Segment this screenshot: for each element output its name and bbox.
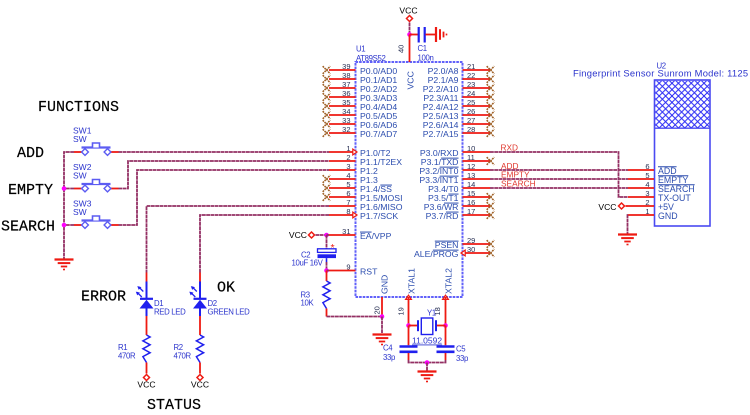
svg-text:VCC: VCC xyxy=(406,71,416,89)
svg-text:C4: C4 xyxy=(383,344,393,353)
svg-text:AT89S52: AT89S52 xyxy=(356,54,385,63)
svg-text:VCC: VCC xyxy=(137,380,155,390)
svg-text:VCC: VCC xyxy=(598,202,616,212)
svg-text:26: 26 xyxy=(467,107,475,116)
svg-text:33: 33 xyxy=(342,116,350,125)
svg-text:SW: SW xyxy=(73,207,87,217)
svg-text:GND: GND xyxy=(380,275,390,294)
svg-text:ERROR: ERROR xyxy=(81,289,126,306)
svg-text:EMPTY: EMPTY xyxy=(8,182,53,199)
svg-text:3: 3 xyxy=(645,189,649,198)
svg-text:XTAL2: XTAL2 xyxy=(444,268,454,294)
svg-text:12: 12 xyxy=(467,162,475,171)
svg-text:38: 38 xyxy=(342,71,350,80)
svg-text:C1: C1 xyxy=(418,44,427,53)
svg-text:XTAL1: XTAL1 xyxy=(407,268,417,294)
svg-text:SW: SW xyxy=(73,171,87,181)
svg-text:32: 32 xyxy=(342,125,350,134)
svg-text:6: 6 xyxy=(645,162,649,171)
svg-text:20: 20 xyxy=(373,306,382,314)
svg-text:RST: RST xyxy=(360,267,378,277)
svg-text:*: * xyxy=(331,242,335,254)
svg-text:100n: 100n xyxy=(418,54,434,63)
svg-text:13: 13 xyxy=(467,171,475,180)
svg-text:5: 5 xyxy=(645,171,649,180)
svg-text:10: 10 xyxy=(467,144,475,153)
svg-text:33p: 33p xyxy=(383,353,396,362)
svg-text:ALE/PROG: ALE/PROG xyxy=(414,249,459,259)
svg-text:Fingerprint Sensor Sunrom Mode: Fingerprint Sensor Sunrom Model: 1125 xyxy=(573,68,748,79)
svg-text:VCC: VCC xyxy=(289,230,307,240)
svg-text:25: 25 xyxy=(467,98,475,107)
svg-text:VCC: VCC xyxy=(399,6,417,16)
svg-text:RXD: RXD xyxy=(501,143,519,153)
svg-text:5: 5 xyxy=(346,180,350,189)
svg-text:C5: C5 xyxy=(456,345,466,354)
svg-text:24: 24 xyxy=(467,89,475,98)
svg-text:P0.7/AD7: P0.7/AD7 xyxy=(360,129,397,139)
svg-text:7: 7 xyxy=(346,198,350,207)
svg-text:39: 39 xyxy=(342,62,350,71)
svg-text:FUNCTIONS: FUNCTIONS xyxy=(38,99,119,116)
svg-text:16: 16 xyxy=(467,198,475,207)
svg-text:21: 21 xyxy=(467,62,475,71)
svg-text:11.0592: 11.0592 xyxy=(412,336,442,346)
svg-text:30: 30 xyxy=(467,245,475,254)
svg-text:470R: 470R xyxy=(174,352,192,361)
svg-text:1: 1 xyxy=(346,144,350,153)
svg-text:3: 3 xyxy=(346,162,350,171)
svg-text:10K: 10K xyxy=(301,299,315,308)
svg-text:SEARCH: SEARCH xyxy=(501,179,536,189)
svg-text:Y1: Y1 xyxy=(427,309,436,318)
svg-text:VCC: VCC xyxy=(191,380,209,390)
svg-text:31: 31 xyxy=(342,227,350,236)
svg-text:23: 23 xyxy=(467,80,475,89)
svg-text:4: 4 xyxy=(346,171,350,180)
svg-text:EA/VPP: EA/VPP xyxy=(360,231,392,241)
svg-text:P1.7/SCK: P1.7/SCK xyxy=(360,211,398,221)
svg-text:OK: OK xyxy=(217,280,235,297)
svg-text:36: 36 xyxy=(342,89,350,98)
svg-text:34: 34 xyxy=(342,107,350,116)
svg-text:ADD: ADD xyxy=(17,145,44,162)
svg-text:GND: GND xyxy=(658,211,678,221)
svg-text:U1: U1 xyxy=(356,45,365,54)
svg-text:4: 4 xyxy=(645,180,649,189)
svg-text:SW: SW xyxy=(73,134,87,144)
svg-text:35: 35 xyxy=(342,98,350,107)
svg-text:9: 9 xyxy=(346,263,350,272)
svg-text:2: 2 xyxy=(645,198,649,207)
svg-text:19: 19 xyxy=(397,307,406,315)
svg-text:37: 37 xyxy=(342,80,350,89)
svg-text:28: 28 xyxy=(467,125,475,134)
svg-text:40: 40 xyxy=(397,45,406,53)
svg-text:22: 22 xyxy=(467,71,475,80)
svg-text:SEARCH: SEARCH xyxy=(1,219,55,236)
svg-text:1: 1 xyxy=(645,207,649,216)
svg-text:11: 11 xyxy=(467,153,475,162)
svg-text:RED LED: RED LED xyxy=(154,308,186,317)
svg-text:P2.7/A15: P2.7/A15 xyxy=(423,129,459,139)
svg-text:6: 6 xyxy=(346,189,350,198)
svg-text:2: 2 xyxy=(346,153,350,162)
svg-text:8: 8 xyxy=(346,207,350,216)
svg-text:33p: 33p xyxy=(456,354,469,363)
svg-text:10uF 16V: 10uF 16V xyxy=(292,259,324,268)
svg-text:29: 29 xyxy=(467,236,475,245)
svg-text:17: 17 xyxy=(467,207,475,216)
svg-text:27: 27 xyxy=(467,116,475,125)
svg-text:GREEN LED: GREEN LED xyxy=(208,308,251,317)
svg-text:470R: 470R xyxy=(118,352,136,361)
svg-text:STATUS: STATUS xyxy=(147,397,201,414)
svg-text:15: 15 xyxy=(467,189,475,198)
svg-text:P3.7/RD: P3.7/RD xyxy=(426,211,459,221)
svg-text:14: 14 xyxy=(467,180,475,189)
